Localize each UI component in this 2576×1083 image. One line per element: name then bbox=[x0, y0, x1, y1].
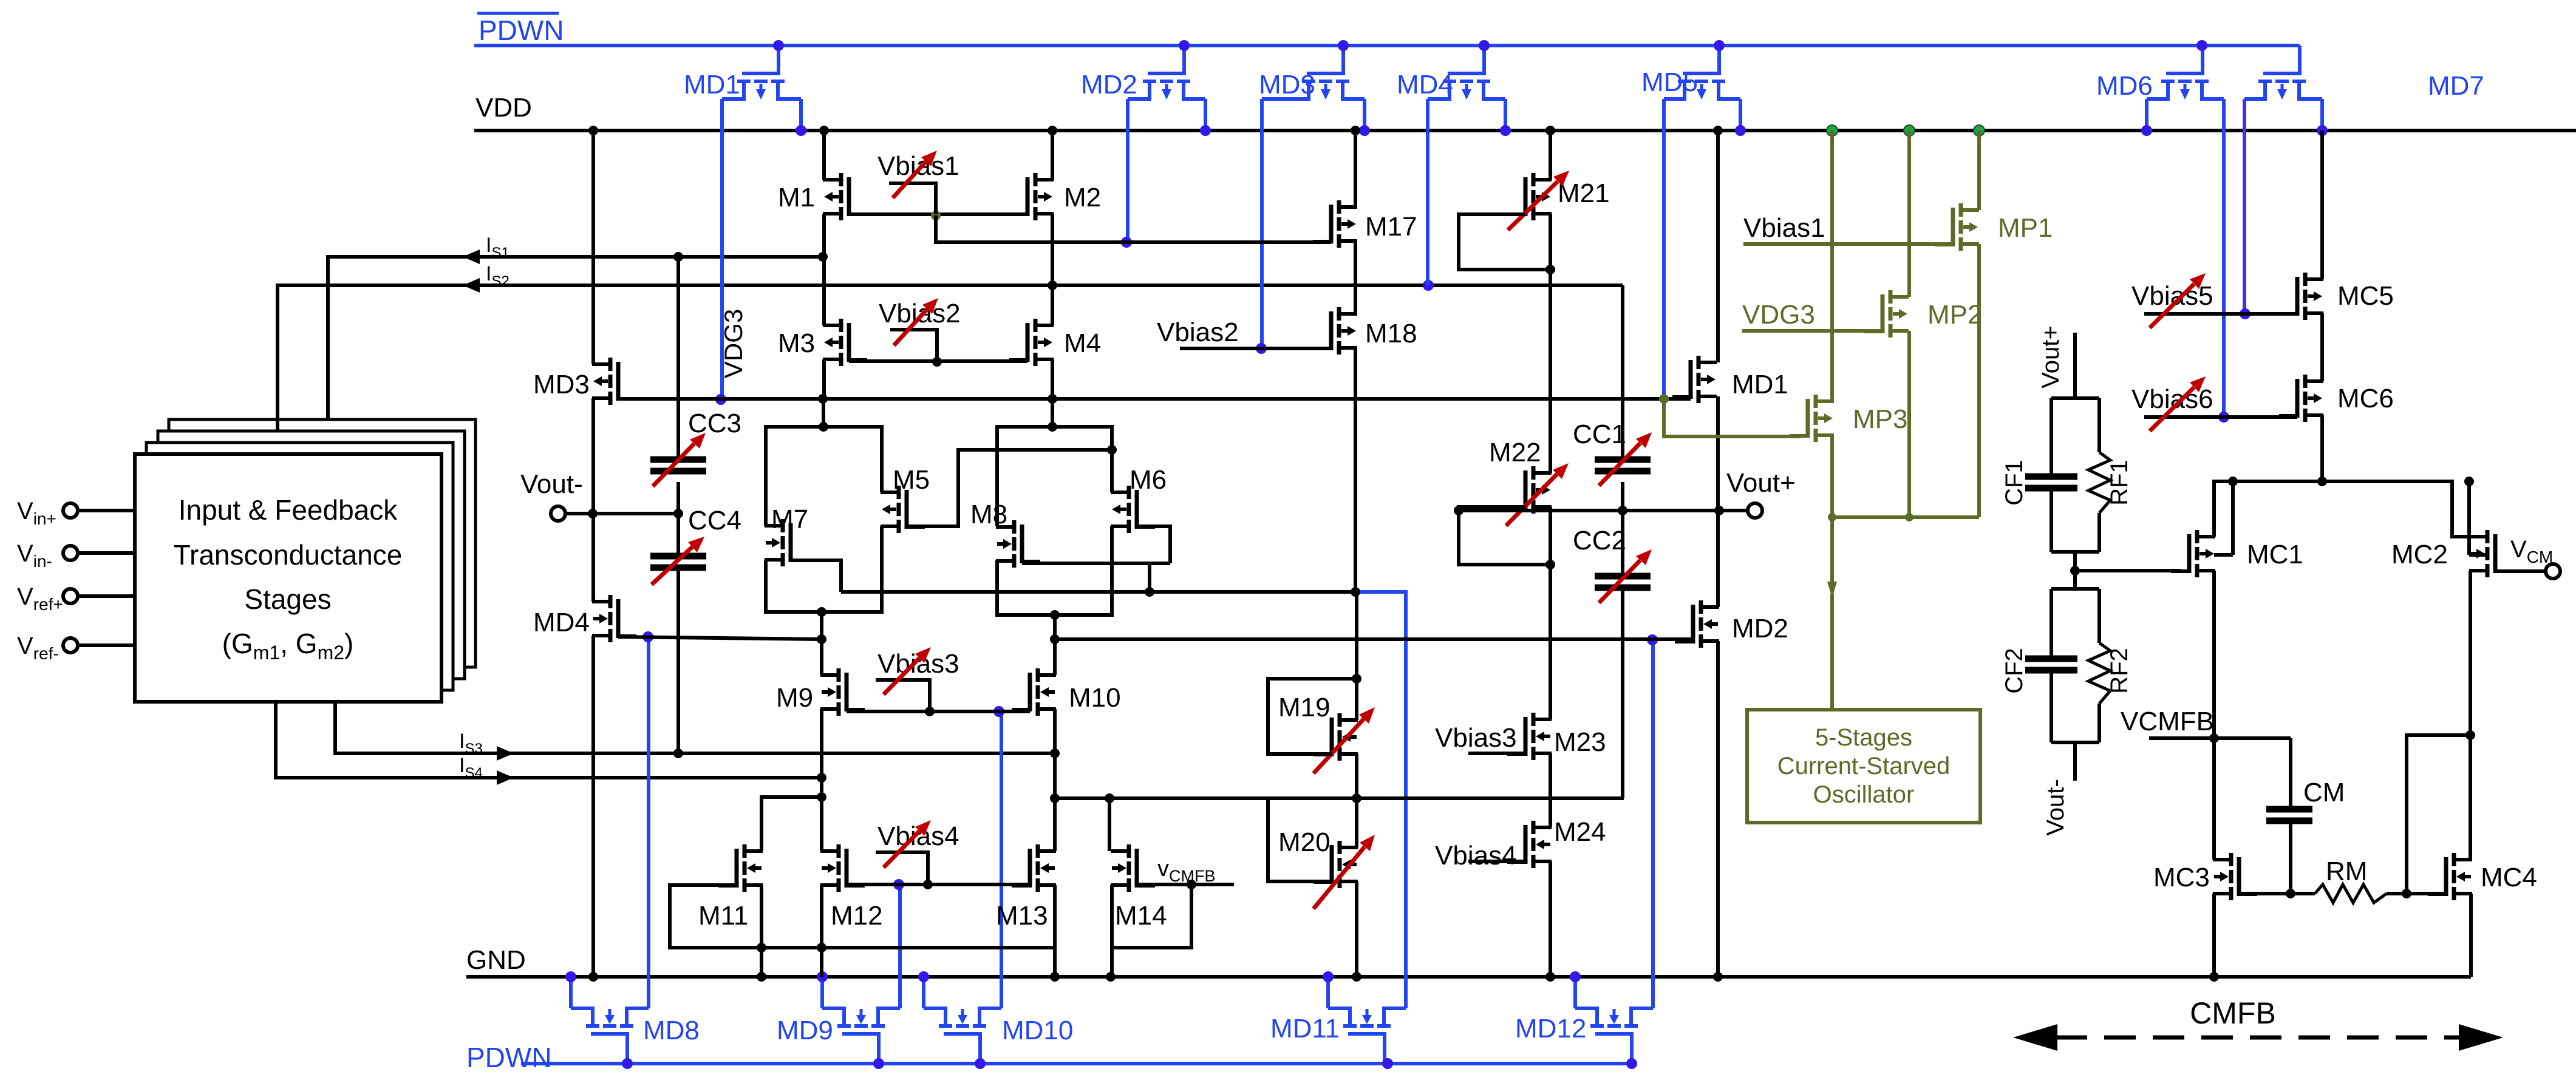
block input stack box 2 bbox=[146, 443, 453, 690]
label Vbias4 bbox=[877, 821, 959, 851]
label CC2 bbox=[1573, 526, 1626, 555]
wire MD12 right lead to MD2 gate line bbox=[1647, 634, 1658, 1008]
wire M8 gate line to cascode-gate net bbox=[1022, 563, 1170, 597]
label VDG3 (oscillator) bbox=[1742, 300, 1815, 330]
arrow CMFB dashed (double-headed) bbox=[2013, 1024, 2503, 1051]
wire VDG3 net (MD1 left lead down) bbox=[715, 99, 726, 405]
wire CC3-CC4 junction at Vout- node bbox=[673, 482, 683, 518]
label M14 bbox=[1115, 901, 1167, 931]
label MD2 (blue) bbox=[1081, 70, 1137, 100]
label IS2 bbox=[486, 262, 509, 290]
wire M21 drain to VDD bbox=[1545, 126, 1555, 180]
wire MD8 left lead to GND bbox=[565, 971, 576, 1008]
terminal Vref- bbox=[17, 633, 135, 663]
label IS1 bbox=[486, 234, 509, 261]
label MD3 (black) bbox=[533, 370, 590, 399]
red arrow Vbias5 (variable) bbox=[2150, 273, 2206, 328]
label MD3 (blue) bbox=[1259, 70, 1315, 100]
svg-text:M1: M1 bbox=[778, 183, 815, 212]
wire MD5 right lead to VDD bbox=[1735, 99, 1746, 136]
svg-text:CC3: CC3 bbox=[688, 409, 741, 438]
wire Vbias5 gate line bbox=[2144, 312, 2297, 316]
svg-text:MD2: MD2 bbox=[1732, 614, 1788, 643]
svg-text:RM: RM bbox=[2326, 857, 2367, 886]
wire MD3 source / MD4 drain column bbox=[591, 398, 595, 602]
wire M8/M6 source join to M10 drain bbox=[997, 526, 1112, 675]
svg-text:M24: M24 bbox=[1554, 817, 1606, 847]
wire RM to MC4 gate node bbox=[2387, 889, 2445, 898]
wire MC3 gate line to RM bbox=[2239, 892, 2315, 895]
terminal Vin- bbox=[17, 540, 135, 571]
svg-text:M10: M10 bbox=[1069, 683, 1121, 713]
wire MD4 gate junction on PDWN bbox=[1479, 40, 1490, 51]
node Vbias4 stub bbox=[876, 852, 928, 884]
svg-text:Current-Starved: Current-Starved bbox=[1777, 753, 1951, 779]
label CC1 bbox=[1573, 419, 1626, 449]
red arrow M19 (variable) bbox=[1314, 707, 1375, 773]
wire MD11 gate junction on PDWN bottom bbox=[1382, 1058, 1393, 1069]
label Vbias4 (right) bbox=[1435, 841, 1517, 871]
wire CF1-CF2 mid node bbox=[2070, 552, 2080, 589]
svg-text:CM: CM bbox=[2303, 778, 2345, 807]
svg-text:M9: M9 bbox=[776, 683, 813, 713]
wire MC1/MC2 tail node line bbox=[2214, 481, 2469, 537]
label MP1 (olive) bbox=[1998, 213, 2053, 243]
wire MD3 left lead to Vbias2 line bbox=[1256, 99, 1267, 354]
wire M22 gate loop bbox=[1454, 506, 1555, 569]
svg-text:MD2: MD2 bbox=[1081, 70, 1137, 100]
label Vout- (rotated, CF2 output) bbox=[2042, 779, 2069, 835]
transistor MD6 (blue PMOS power-down) bbox=[2147, 46, 2224, 100]
transistor MD12 (blue NMOS power-down) bbox=[1575, 1008, 1653, 1064]
label IS2 arrowhead bbox=[463, 278, 480, 293]
transistor M8 bbox=[996, 520, 1040, 568]
label RF2 (rotated) bbox=[2106, 648, 2133, 694]
label MC4 bbox=[2481, 863, 2537, 892]
transistor M19 bbox=[1314, 713, 1358, 761]
transistor M13 bbox=[1012, 844, 1056, 892]
capacitor CC1 bbox=[1595, 460, 1651, 471]
label PDWN (overlined) bbox=[477, 13, 564, 46]
wire M7 gate step to cascode-gate net bbox=[791, 560, 841, 592]
svg-text:CMFB: CMFB bbox=[2190, 996, 2276, 1030]
label MD7 (blue) bbox=[2428, 71, 2484, 101]
label M18 bbox=[1365, 319, 1417, 348]
wire M12-M13 gate line (Vbias4 node) bbox=[847, 880, 1030, 889]
svg-text:Vout+: Vout+ bbox=[1726, 468, 1796, 498]
label MC5 bbox=[2337, 281, 2394, 311]
wire IS4 net bbox=[276, 702, 826, 783]
wire M4 source to VDG3 node bbox=[1048, 359, 1057, 404]
wire M22 source / M23 drain column bbox=[1549, 507, 1552, 719]
label Vbias1 bbox=[877, 151, 959, 181]
transistor MD5 (blue PMOS power-down) bbox=[1664, 46, 1740, 100]
label MD9 (blue) bbox=[777, 1016, 833, 1045]
transistor MC4 bbox=[2428, 853, 2472, 900]
wire Vbias1 gate line to M17 bbox=[936, 216, 1331, 242]
svg-text:M7: M7 bbox=[771, 504, 808, 534]
label Vbias2 bbox=[879, 299, 961, 328]
label M9 bbox=[776, 683, 813, 713]
wire M7/M5 source join to M9 drain bbox=[766, 526, 882, 675]
red arrow CC2 (variable) bbox=[1599, 549, 1652, 603]
red arrow M22 (variable) bbox=[1506, 463, 1569, 526]
red arrow Vbias3 (variable) bbox=[884, 647, 931, 694]
transistor M20 bbox=[1314, 841, 1358, 888]
wire Vbias1 olive line bbox=[1743, 242, 1953, 246]
svg-text:GND: GND bbox=[466, 945, 526, 975]
transistor M4 bbox=[1009, 319, 1054, 366]
wire MD9 right lead to Vbias4 line bbox=[893, 879, 904, 1008]
svg-text:CF1: CF1 bbox=[2001, 460, 2028, 506]
svg-text:Vbias2: Vbias2 bbox=[879, 299, 961, 328]
wire MD6 right lead to Vbias6 line bbox=[2218, 99, 2229, 423]
wire M8/M6 drain loop to M4 source bbox=[997, 399, 1112, 526]
wire M21 source / M22 drain column bbox=[1549, 214, 1552, 473]
wire MC1 source column to MC3 drain bbox=[2212, 738, 2216, 860]
wire Vbias3 right gate line bbox=[1468, 752, 1525, 755]
transistor MC5 bbox=[2279, 273, 2323, 320]
resistor RM bbox=[2315, 884, 2387, 903]
node Vbias2 stub bbox=[890, 330, 937, 361]
block 5-Stages Current-Starved Oscillator bbox=[1747, 710, 1980, 823]
label GND bbox=[466, 945, 526, 975]
label MD11 (blue) bbox=[1270, 1014, 1340, 1044]
wire MD5 gate junction on PDWN bbox=[1714, 40, 1725, 51]
wire M14 source loop to vCMFB and GND bbox=[1106, 884, 1191, 982]
label Vbias3 (right) bbox=[1435, 723, 1517, 753]
svg-text:MD5: MD5 bbox=[1641, 67, 1698, 97]
svg-text:MD3: MD3 bbox=[533, 370, 590, 399]
wire MD2 source to GND bbox=[1713, 641, 1723, 982]
resistor RF1 bbox=[2088, 452, 2110, 513]
label IS1 arrowhead bbox=[463, 250, 480, 264]
svg-text:Oscillator: Oscillator bbox=[1813, 781, 1915, 808]
wire M11 source to GND bbox=[757, 885, 766, 982]
svg-text:Stages: Stages bbox=[244, 583, 331, 615]
wire Vbias6 gate line bbox=[2144, 415, 2297, 419]
transistor MC6 bbox=[2279, 375, 2323, 422]
svg-text:M14: M14 bbox=[1115, 901, 1167, 931]
label M2 bbox=[1064, 183, 1101, 212]
transistor MD4 (blue PMOS power-down) bbox=[1428, 46, 1505, 100]
label CMFB bbox=[2190, 996, 2276, 1030]
wire M12 source to GND bbox=[820, 885, 823, 977]
svg-text:M18: M18 bbox=[1365, 319, 1417, 348]
svg-text:MD1: MD1 bbox=[1732, 370, 1788, 399]
transistor M1 bbox=[823, 173, 867, 220]
terminal Vref+ bbox=[17, 583, 135, 614]
wire M10 source column to IS3 and M13 drain bbox=[1050, 709, 1060, 851]
svg-text:CC1: CC1 bbox=[1573, 419, 1626, 449]
block input stack box 3 bbox=[158, 431, 465, 679]
wire M2 drain to VDD bbox=[1048, 126, 1057, 180]
transistor MP1 (olive) bbox=[1935, 203, 1979, 251]
transistor MD1 (black right) bbox=[1672, 356, 1717, 403]
transistor MD2 (blue PMOS power-down) bbox=[1128, 46, 1205, 100]
label MD10 (blue) bbox=[1002, 1016, 1073, 1045]
wire MD7 right lead to VDD bbox=[2317, 99, 2328, 136]
wire MD2 drain from Vout+ node bbox=[1716, 511, 1720, 607]
wire VCMFB corner to CM bbox=[2289, 738, 2292, 809]
label MD1 (black) bbox=[1732, 370, 1788, 399]
svg-text:M3: M3 bbox=[778, 328, 815, 358]
wire CC3 column from IS1 bbox=[676, 257, 680, 460]
wire MD9 gate junction on PDWN bottom bbox=[873, 1058, 884, 1069]
svg-text:VDG3: VDG3 bbox=[719, 309, 748, 378]
wire MD8 right lead to MD4 gate line bbox=[642, 631, 653, 1008]
svg-text:MD9: MD9 bbox=[777, 1016, 833, 1045]
svg-text:Vout-: Vout- bbox=[2042, 779, 2069, 835]
transistor MD7 (blue PMOS power-down) bbox=[2244, 46, 2322, 100]
wire IS3 net bbox=[335, 702, 1060, 758]
svg-text:Vbias1: Vbias1 bbox=[1743, 213, 1825, 243]
label M4 bbox=[1064, 328, 1101, 358]
wire oscillator feed with arrow bbox=[1827, 517, 1837, 710]
wire MD2 right lead to VDD bbox=[1200, 99, 1211, 136]
svg-text:MD4: MD4 bbox=[533, 608, 590, 637]
svg-text:MP1: MP1 bbox=[1998, 213, 2053, 243]
svg-text:M2: M2 bbox=[1064, 183, 1101, 212]
wire MD12 gate from PDWN bottom rail end bbox=[1626, 1058, 1637, 1069]
svg-text:M6: M6 bbox=[1130, 465, 1167, 495]
wire CC1 to Vout+ node bbox=[1618, 482, 1627, 515]
wire CC4 to IS3 line bbox=[676, 514, 680, 753]
red arrow Vbias2 (variable) bbox=[894, 298, 938, 345]
svg-text:CC4: CC4 bbox=[688, 506, 741, 535]
wire M19 drain loop (diode) bbox=[1268, 674, 1361, 754]
transistor M10 bbox=[1012, 668, 1056, 716]
label MD4 (blue) bbox=[1397, 70, 1453, 100]
wire MD1 drain to VDD bbox=[1713, 126, 1723, 362]
transistor MD9 (blue NMOS power-down) bbox=[822, 1008, 900, 1064]
wire MD2 gate line from M10 drain bbox=[1055, 637, 1694, 641]
svg-text:MC6: MC6 bbox=[2337, 384, 2394, 413]
transistor M21 bbox=[1507, 173, 1552, 220]
label MC3 bbox=[2153, 863, 2210, 892]
wire CF2 output stub bbox=[2073, 742, 2077, 781]
wire M5 gate cross-couple to M6 drain bbox=[907, 445, 1117, 526]
label Vbias6 bbox=[2131, 384, 2213, 414]
wire IS1 net bbox=[328, 252, 828, 419]
wire MP1 column VDD to supply node bbox=[1974, 125, 1985, 517]
wire MC6 source to tail node bbox=[2317, 415, 2327, 486]
capacitor CC2 bbox=[1595, 576, 1651, 588]
wire vCMFB gate line bbox=[1137, 880, 1234, 889]
transistor MC2 bbox=[2464, 477, 2513, 577]
label IS3 arrowhead bbox=[497, 746, 514, 761]
wire MD6 gate junction on PDWN bbox=[2196, 40, 2207, 51]
transistor M14 bbox=[1111, 844, 1155, 892]
wire PDWN top rail bbox=[474, 44, 2300, 47]
transistor M18 bbox=[1313, 307, 1357, 355]
red arrow M21 (variable) bbox=[1508, 171, 1569, 230]
label CF2 (rotated) bbox=[2001, 648, 2028, 694]
wire MD9 left lead to GND bbox=[817, 971, 828, 1008]
wire MD11 right lead to cascode gate node bbox=[1357, 592, 1406, 1008]
svg-text:M22: M22 bbox=[1489, 438, 1541, 467]
wire MD10 right lead to Vbias3 line bbox=[993, 706, 1004, 1008]
label IS4 bbox=[459, 754, 483, 781]
wire M23 source / M24 drain column bbox=[1549, 753, 1552, 827]
label IS3 bbox=[459, 730, 483, 757]
wire VCMFB line bbox=[2149, 736, 2291, 740]
label M12 bbox=[831, 901, 883, 931]
wire MC2 source down to VCMFB-right node bbox=[2465, 571, 2475, 740]
label M3 bbox=[778, 328, 815, 358]
transistor MD10 (blue NMOS power-down) bbox=[924, 1008, 1001, 1064]
label MC6 bbox=[2337, 384, 2394, 413]
node Vbias3 stub bbox=[876, 680, 930, 711]
wire VDD rail bbox=[474, 129, 2576, 132]
wire MP3 column VDD to supply node bbox=[1827, 125, 1838, 521]
wire MC1 source to VCMFB node bbox=[2209, 571, 2219, 743]
wire cascode-gate node line (M7/M8 gates to M19 drain) bbox=[841, 587, 1360, 597]
svg-text:CC2: CC2 bbox=[1573, 526, 1626, 555]
transistor M23 bbox=[1507, 713, 1552, 760]
svg-text:Vbias3: Vbias3 bbox=[1435, 723, 1517, 753]
label M7 bbox=[771, 504, 808, 534]
svg-text:MD8: MD8 bbox=[643, 1016, 700, 1045]
svg-text:MC4: MC4 bbox=[2481, 863, 2537, 892]
node Vbias1 stub bbox=[889, 183, 936, 214]
label Vbias1 (oscillator) bbox=[1743, 213, 1825, 243]
red arrow Vbias6 (variable) bbox=[2150, 376, 2206, 431]
transistor MP2 (olive) bbox=[1864, 290, 1909, 338]
label MD6 (blue) bbox=[2096, 71, 2153, 101]
label M21 bbox=[1558, 178, 1610, 208]
wire MC4 drain column bbox=[2469, 735, 2472, 860]
wire MD4 left lead to IS2 line bbox=[1426, 99, 1429, 285]
label M5 bbox=[893, 465, 930, 495]
wire 2nd-stage output line (M13/M14/M20 drains to CC2) bbox=[1055, 793, 1624, 803]
wire MD11 left lead to GND bbox=[1323, 971, 1334, 1008]
label Vbias2 (right) bbox=[1157, 317, 1239, 347]
wire MD6 left lead to VDD bbox=[2141, 99, 2152, 136]
wire M17 drain to VDD bbox=[1351, 126, 1360, 207]
svg-text:MD6: MD6 bbox=[2096, 71, 2153, 101]
label CC4 bbox=[688, 506, 741, 535]
svg-text:VCMFB: VCMFB bbox=[2121, 707, 2214, 736]
wire M1 drain to VDD bbox=[819, 126, 829, 180]
label MD8 (blue) bbox=[643, 1016, 700, 1045]
wire MD5 left lead to VDG3 node bbox=[1662, 99, 1666, 399]
wire MD1 source to Vout+ node bbox=[1716, 396, 1720, 511]
transistor M3 bbox=[823, 319, 867, 366]
wire MD10 gate junction on PDWN bottom bbox=[975, 1058, 986, 1069]
transistor M5 bbox=[881, 486, 925, 533]
block input stack box 4 bbox=[169, 419, 475, 667]
label M6 bbox=[1130, 465, 1167, 495]
svg-text:Input & Feedback: Input & Feedback bbox=[179, 494, 398, 526]
svg-text:M11: M11 bbox=[698, 901, 748, 931]
wire M3-M4 gate line (Vbias2 node) bbox=[849, 357, 1027, 367]
terminal Vout+ and label bbox=[1726, 468, 1796, 518]
wire MD10 left lead to GND bbox=[918, 971, 929, 1008]
capacitor CC3 bbox=[650, 460, 706, 471]
label CM bbox=[2303, 778, 2345, 807]
svg-text:M20: M20 bbox=[1278, 827, 1331, 857]
transistor MD4 (black) bbox=[592, 595, 636, 642]
label M13 bbox=[996, 901, 1048, 931]
block Input & Feedback Transconductance Stages bbox=[135, 454, 441, 702]
label MP3 (olive) bbox=[1853, 404, 1907, 434]
svg-text:Vbias2: Vbias2 bbox=[1157, 317, 1239, 347]
label CC3 bbox=[688, 409, 741, 438]
wire MD4 right lead to VDD bbox=[1500, 99, 1511, 136]
svg-text:M19: M19 bbox=[1278, 693, 1331, 722]
svg-text:Vbias1: Vbias1 bbox=[877, 151, 959, 181]
wire CF1 input stub bbox=[2073, 333, 2077, 398]
transistor MC3 bbox=[2213, 853, 2257, 900]
label M19 bbox=[1278, 693, 1331, 722]
label Vbias5 bbox=[2131, 281, 2213, 311]
capacitor CM bbox=[2266, 809, 2312, 821]
wire M20 gate loop (diode) bbox=[1268, 798, 1357, 881]
svg-text:MD1: MD1 bbox=[684, 70, 740, 100]
wire MC4 gate-drain loop bbox=[2407, 735, 2470, 894]
wire CM bottom to MC3 gate line bbox=[2286, 820, 2295, 898]
label MC2 bbox=[2391, 540, 2448, 569]
svg-text:M13: M13 bbox=[996, 901, 1048, 931]
transistor MD1 (blue PMOS power-down) bbox=[722, 46, 801, 100]
label MD12 (blue) bbox=[1515, 1014, 1586, 1044]
label M24 bbox=[1554, 817, 1606, 847]
transistor MD2 (black right) bbox=[1675, 600, 1719, 648]
wire M13 source to GND bbox=[1050, 885, 1060, 982]
svg-text:MC3: MC3 bbox=[2153, 863, 2210, 892]
transistor MD11 (blue NMOS power-down) bbox=[1328, 1008, 1406, 1064]
label MD2 (black) bbox=[1732, 614, 1788, 643]
svg-text:Vout-: Vout- bbox=[520, 469, 583, 499]
svg-text:VDD: VDD bbox=[475, 93, 532, 123]
svg-text:RF1: RF1 bbox=[2106, 460, 2133, 506]
label M17 bbox=[1365, 212, 1417, 242]
wire M9-M10 gate line (Vbias3 node) bbox=[847, 707, 1030, 716]
wire MD1 gate to PDWN junction bbox=[773, 40, 784, 51]
terminal VCM bbox=[2495, 564, 2560, 579]
wire M1/M3 column (source-drain, IS1 tap) bbox=[822, 214, 826, 325]
label M10 bbox=[1069, 683, 1121, 713]
transistor M9 bbox=[820, 668, 865, 716]
svg-text:PDWN: PDWN bbox=[479, 15, 564, 46]
resistor RF2 bbox=[2088, 643, 2110, 704]
wire M14 drain from 2nd-stage line bbox=[1105, 793, 1114, 851]
wire VDG3 node line bbox=[618, 394, 1691, 404]
wire VDG3 olive line bbox=[1742, 329, 1883, 333]
svg-text:MP3: MP3 bbox=[1853, 404, 1907, 434]
red arrow Vbias1 (variable) bbox=[893, 151, 937, 198]
wire MC5/MC6 column bbox=[2320, 313, 2324, 381]
wire M6 gate step down bbox=[1137, 526, 1170, 563]
svg-text:M17: M17 bbox=[1365, 212, 1417, 242]
label MP2 (olive) bbox=[1927, 300, 1982, 330]
wire M17/M18 column bbox=[1354, 241, 1357, 314]
label RF1 (rotated) bbox=[2106, 460, 2133, 506]
svg-text:M12: M12 bbox=[831, 901, 883, 931]
transistor M24 bbox=[1507, 821, 1552, 868]
label M8 bbox=[970, 500, 1007, 529]
wire MP3 gate from MD1 gate node bbox=[1664, 399, 1800, 436]
svg-text:M4: M4 bbox=[1064, 328, 1101, 358]
wire PDWN bottom rail bbox=[521, 1062, 1632, 1065]
svg-text:VDG3: VDG3 bbox=[1742, 300, 1815, 330]
wire M24 source to GND bbox=[1545, 861, 1555, 982]
label VCM bbox=[2510, 536, 2553, 566]
wire MD7 gate from PDWN rail end bbox=[2298, 46, 2302, 73]
svg-text:5-Stages: 5-Stages bbox=[1815, 724, 1912, 751]
wire oscillator supply node line bbox=[1832, 515, 1979, 519]
